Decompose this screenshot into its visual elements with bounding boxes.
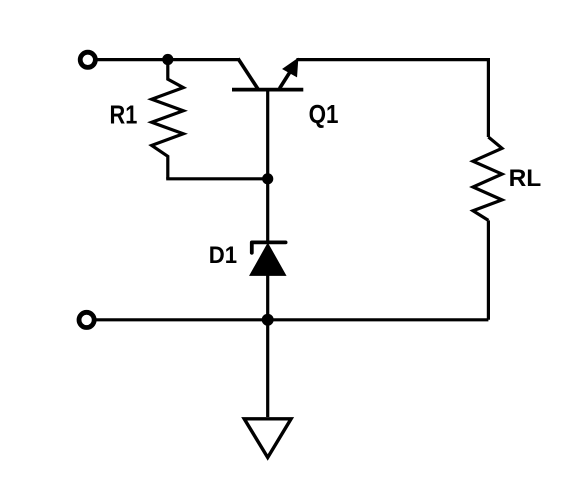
transistor Q1: emitter diagonal — [280, 68, 293, 89]
svg-text:R1: R1 — [110, 101, 138, 129]
node: junction dot base/R1 — [262, 173, 273, 184]
zener diode D1: cathode bar with bent end — [252, 242, 286, 252]
wire: zener anode down to ground node — [266, 274, 269, 320]
wire: R1 bottom to base node — [166, 177, 268, 180]
node: junction dot at R1 top — [162, 54, 173, 65]
terminal circle (input -) bottom-left — [79, 312, 94, 327]
transistor Q1: emitter arrowhead — [283, 59, 298, 77]
wire: base lead from base bar down to zener cathode — [266, 91, 269, 242]
zener diode D1: anode triangle (filled, pointing up) — [250, 244, 286, 276]
transistor Q1: base bar — [232, 88, 303, 92]
node: junction dot bottom — [262, 314, 274, 326]
wire: emitter to top-right corner and down right rail — [296, 60, 488, 137]
svg-text:RL: RL — [509, 165, 542, 192]
transistor Q1: collector diagonal — [238, 59, 259, 91]
ground symbol (open triangle) — [244, 419, 291, 458]
svg-text:Q1: Q1 — [309, 101, 339, 129]
wire: ground lead down — [266, 321, 269, 417]
resistor R1 (zigzag) — [152, 60, 184, 179]
terminal circle (input +) top-left — [80, 52, 95, 67]
svg-text:D1: D1 — [209, 242, 237, 269]
wire: bottom rail — [94, 318, 488, 321]
wire: RL bottom down right rail to bottom wire — [487, 220, 490, 319]
wire: top-left terminal to transistor collector — [96, 58, 239, 61]
resistor RL (zigzag) — [473, 137, 502, 220]
